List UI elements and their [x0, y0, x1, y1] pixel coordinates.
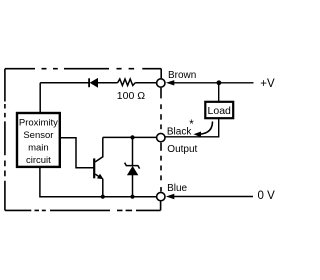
+V wire with arrow into Brown terminal: [166, 80, 254, 85]
terminal Black: [157, 133, 165, 141]
junction: emitter on bottom rail: [101, 195, 105, 199]
wire: box right to transistor base: [60, 138, 94, 168]
emitter with arrow: [95, 174, 99, 177]
anode triangle pointing up: [127, 167, 137, 176]
wire: supply rail left segment: [40, 82, 88, 84]
sensor enclosure dashed outline (top, left, bottom edges): [5, 69, 161, 211]
zener diode (protection): [125, 137, 140, 196]
wire: diode to resistor: [98, 82, 118, 84]
svg-text:Sensor: Sensor: [23, 130, 53, 141]
svg-text:Proximity: Proximity: [19, 118, 58, 129]
svg-text:*: *: [189, 119, 194, 131]
svg-text:Load: Load: [208, 105, 232, 117]
svg-text:+V: +V: [260, 78, 275, 90]
terminal Blue: [157, 192, 165, 200]
enclosure right edge dashed (through terminals): [160, 69, 163, 211]
proximity sensor main circuit block: [17, 113, 60, 167]
wire: Load bottom down and left to Black terminal: [165, 118, 218, 137]
wire: collector rail to Black terminal: [103, 136, 157, 138]
wire: box top up to supply rail: [39, 83, 41, 113]
svg-text:circuit: circuit: [26, 155, 51, 166]
svg-text:100 Ω: 100 Ω: [117, 90, 145, 102]
svg-text:0 V: 0 V: [258, 190, 276, 202]
collector: [95, 137, 103, 162]
0V wire with arrow into Blue terminal: [166, 194, 253, 199]
load box: [205, 102, 233, 118]
svg-text:Brown: Brown: [168, 70, 196, 81]
terminal Brown: [157, 79, 165, 87]
diode (series protection, pointing left): [89, 78, 98, 87]
base bar: [93, 158, 95, 178]
junction: zener bottom on bottom rail: [130, 195, 134, 199]
resistor 100 ohm zigzag: [118, 79, 136, 86]
wire: box bottom down to emitter rail: [40, 167, 156, 197]
svg-text:Blue: Blue: [167, 183, 187, 194]
annotation curved arrow to output wire: [194, 122, 213, 138]
junction: zener top on collector rail: [130, 135, 134, 139]
junction on +V wire: [217, 80, 222, 85]
cathode bar with zener ticks: [125, 163, 140, 169]
wire: resistor to Brown terminal: [135, 82, 156, 84]
wire: junction down to Load: [218, 83, 220, 102]
transistor (NPN): [94, 137, 103, 196]
svg-text:main: main: [28, 142, 49, 153]
svg-text:Output: Output: [167, 144, 197, 155]
